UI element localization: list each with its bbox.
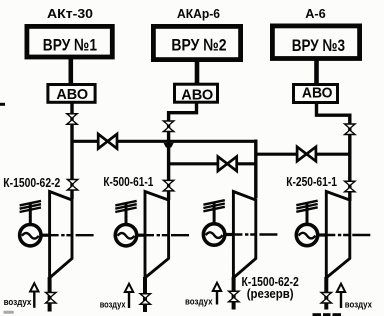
intake pipe C4 [324, 277, 328, 310]
svg-text:воздух: воздух [345, 300, 373, 311]
compressor C2 shaft dash-dot [146, 234, 190, 236]
stem VRU1 to AVO1 [69, 57, 74, 85]
compressor C3 shaft dash-dot [234, 233, 278, 235]
valve V4b [343, 181, 357, 193]
stem VRU3 to AVO3 [314, 58, 319, 85]
caption remnant right [313, 313, 342, 316]
valve V4a [343, 123, 357, 135]
cooler box AVO3 [294, 85, 338, 103]
power feed M4 [296, 201, 317, 224]
svg-text:АВО: АВО [56, 86, 88, 103]
unit box VRU2 [153, 26, 240, 59]
intake valve C1 [44, 292, 58, 304]
motor M2 [115, 225, 136, 246]
motor M3 stub [224, 233, 233, 236]
unit box VRU1 [27, 26, 112, 57]
svg-text:К-500-61-1: К-500-61-1 [103, 174, 153, 189]
air arrow C1 [33, 291, 35, 308]
unit box VRU3 [272, 26, 359, 59]
svg-text:АВО: АВО [302, 85, 333, 102]
cooler box AVO1 [48, 85, 95, 103]
compressor C2 body [145, 192, 169, 278]
intake valve C4 [319, 292, 333, 304]
svg-text:воздух: воздух [185, 297, 213, 308]
gate valve BT2 [218, 157, 237, 171]
compressor C1 shaft dash-dot [51, 234, 95, 236]
valve V2a [161, 120, 175, 132]
motor M4 stub [317, 233, 326, 236]
intake pipe C2 [143, 277, 147, 312]
svg-text:ВРУ №2: ВРУ №2 [171, 35, 226, 54]
svg-text:воздух: воздух [4, 297, 32, 308]
compressor C1 body [50, 192, 72, 278]
header H3 [256, 153, 350, 156]
svg-text:А-6: А-6 [305, 6, 326, 21]
power feed M2 [115, 201, 136, 224]
power feed M1 [20, 201, 41, 224]
svg-text:АКт-30: АКт-30 [47, 6, 93, 21]
intake pipe C1 [48, 277, 52, 312]
motor M3 [203, 224, 224, 245]
edge artifact left [0, 103, 5, 106]
compressor C3 body [233, 192, 255, 278]
gate valve BT3 [297, 147, 316, 161]
motor M1 stub [40, 234, 50, 237]
intake valve C3 [227, 291, 241, 303]
pipe line1 AVO1 down [70, 103, 73, 199]
intake pipe C3 [232, 277, 236, 310]
svg-text:АВО: АВО [181, 87, 213, 104]
header H2 [169, 162, 256, 165]
intake valve C2 [138, 293, 152, 305]
pipe line3 reserve header [254, 140, 257, 199]
compressor C4 shaft dash-dot [327, 234, 371, 236]
pipe line4 AVO3 jog down [317, 102, 350, 201]
motor M2 stub [136, 234, 145, 237]
svg-text:ВРУ №1: ВРУ №1 [43, 35, 97, 54]
svg-text:воздух: воздух [100, 300, 126, 311]
valve V1b [65, 179, 79, 191]
caption remnant left [3, 311, 14, 314]
pipe line2 AVO2 jog down [169, 102, 197, 200]
stem VRU2 to AVO2 [195, 59, 200, 85]
valve V1a [65, 113, 79, 125]
power feed M3 [203, 200, 224, 223]
svg-text:(резерв): (резерв) [247, 286, 294, 301]
junction node line2/H1 [164, 143, 174, 148]
air arrow C4 [340, 291, 342, 308]
air arrow C2 [128, 291, 130, 308]
cooler box AVO2 [175, 84, 218, 102]
valve V2b [161, 180, 175, 192]
gate valve BT1 [98, 134, 117, 149]
compressor C4 body [326, 192, 350, 278]
air arrow C3 [216, 290, 218, 305]
svg-text:К-1500-62-2: К-1500-62-2 [3, 175, 60, 190]
motor M1 [20, 225, 41, 246]
header H1 [72, 140, 256, 143]
svg-text:К-250-61-1: К-250-61-1 [286, 174, 337, 189]
motor M4 [296, 224, 317, 245]
svg-text:АКАр-6: АКАр-6 [177, 6, 220, 21]
svg-text:ВРУ №3: ВРУ №3 [292, 36, 345, 55]
